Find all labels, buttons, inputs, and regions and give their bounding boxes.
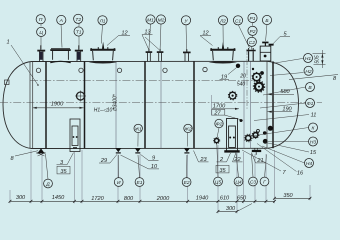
svg-text:Ц5: Ц5: [215, 180, 222, 186]
svg-text:10: 10: [151, 164, 158, 170]
svg-text:Ф2: Ф2: [216, 122, 223, 128]
svg-text:35: 35: [60, 169, 67, 175]
svg-text:540: 540: [237, 82, 246, 88]
svg-text:22: 22: [233, 157, 241, 163]
svg-text:300: 300: [16, 195, 26, 201]
svg-text:Р2: Р2: [250, 29, 256, 35]
svg-text:1700: 1700: [213, 103, 226, 109]
svg-text:Ж2: Ж2: [183, 126, 191, 132]
svg-text:23: 23: [199, 157, 207, 163]
svg-text:35: 35: [219, 168, 226, 174]
svg-text:Н4: Н4: [306, 161, 313, 167]
svg-text:Н1: Н1: [305, 56, 312, 62]
svg-text:М2: М2: [158, 18, 165, 24]
svg-text:1900: 1900: [51, 102, 64, 108]
svg-text:П: П: [39, 17, 43, 23]
svg-text:800: 800: [124, 196, 134, 202]
svg-text:13: 13: [144, 30, 151, 36]
svg-text:1: 1: [6, 40, 9, 46]
svg-text:Е1: Е1: [137, 180, 143, 186]
svg-text:Л1: Л1: [98, 18, 105, 24]
svg-text:16: 16: [297, 171, 304, 177]
svg-text:505: 505: [315, 55, 321, 64]
svg-text:Ц: Ц: [39, 30, 43, 36]
svg-text:610: 610: [220, 195, 230, 201]
svg-text:Т1: Т1: [76, 30, 82, 36]
svg-text:Л2: Л2: [219, 18, 226, 24]
svg-text:Е2: Е2: [184, 180, 190, 186]
svg-text:Ф1: Ф1: [307, 101, 314, 107]
svg-text:27: 27: [213, 110, 221, 116]
svg-text:А: А: [59, 18, 63, 24]
svg-text:11: 11: [311, 113, 317, 119]
svg-text:9: 9: [152, 155, 155, 161]
svg-text:650: 650: [237, 195, 247, 201]
svg-text:С1: С1: [235, 18, 242, 24]
svg-text:М1: М1: [147, 18, 154, 24]
svg-text:Д: Д: [45, 182, 50, 188]
svg-text:Ц4: Ц4: [235, 180, 242, 186]
svg-text:Т2: Т2: [75, 17, 81, 23]
svg-text:С3: С3: [250, 180, 257, 186]
svg-text:15: 15: [310, 150, 317, 156]
svg-text:∅3400*: ∅3400*: [113, 93, 119, 111]
svg-text:350: 350: [283, 193, 293, 199]
svg-text:Г: Г: [263, 180, 266, 186]
svg-text:300: 300: [226, 206, 236, 212]
svg-text:С2: С2: [249, 40, 256, 46]
svg-text:Н2: Н2: [305, 69, 312, 75]
svg-text:1450: 1450: [52, 195, 65, 201]
svg-text:И: И: [117, 180, 121, 186]
svg-text:Р1: Р1: [250, 16, 256, 22]
svg-text:1940: 1940: [196, 195, 209, 201]
svg-text:12: 12: [202, 31, 209, 37]
svg-text:12: 12: [121, 31, 128, 37]
svg-text:20: 20: [239, 74, 246, 80]
svg-text:190: 190: [282, 106, 292, 112]
svg-text:29: 29: [100, 158, 107, 164]
svg-text:580: 580: [280, 89, 290, 95]
svg-text:Н3: Н3: [310, 140, 317, 146]
svg-text:19: 19: [221, 75, 227, 81]
svg-text:Ж1: Ж1: [134, 126, 142, 132]
svg-text:1720: 1720: [91, 196, 104, 202]
svg-text:2000: 2000: [156, 196, 170, 202]
